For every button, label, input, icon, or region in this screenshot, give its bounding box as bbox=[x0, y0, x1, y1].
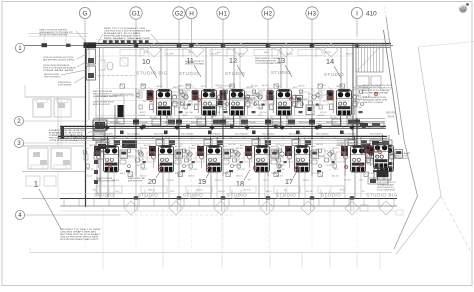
svg-text:KE 100: KE 100 bbox=[244, 190, 251, 192]
adjacent building lower rooms bbox=[22, 146, 85, 172]
svg-text:12: 12 bbox=[229, 56, 237, 65]
svg-text:OA 150: OA 150 bbox=[215, 84, 223, 87]
kitchen counters lower units bbox=[96, 186, 344, 193]
housekeeping fixtures bbox=[99, 58, 128, 70]
grid bubble I bbox=[351, 7, 362, 18]
svg-text:KE 100: KE 100 bbox=[294, 107, 301, 109]
corridor duct labels bbox=[100, 133, 383, 135]
svg-text:DUCT DUCT GRILLE RETURN: DUCT DUCT GRILLE RETURN bbox=[377, 190, 395, 192]
grid line H3 (vertical dashed) bbox=[311, 19, 313, 250]
fan coil pod lower unit 16 bbox=[341, 136, 374, 173]
ground ticks bbox=[103, 253, 380, 270]
svg-text:SA 125: SA 125 bbox=[303, 179, 310, 182]
note riser bbox=[93, 102, 115, 106]
svg-text:SA 250x200: SA 250x200 bbox=[137, 121, 149, 124]
svg-text:EA 75: EA 75 bbox=[266, 190, 272, 193]
leader right notes bbox=[347, 87, 362, 101]
svg-text:OA 150: OA 150 bbox=[156, 85, 164, 88]
upper units inner line bbox=[93, 55, 353, 57]
door swing arcs upper units bbox=[140, 48, 325, 57]
wall tick at x44 bbox=[42, 43, 48, 47]
svg-text:EA 75: EA 75 bbox=[178, 85, 184, 88]
svg-text:SA 250x200: SA 250x200 bbox=[326, 121, 338, 124]
svg-text:FCU-01: FCU-01 bbox=[286, 117, 294, 119]
faint street diagonal top-right bbox=[418, 42, 474, 48]
svg-text:CFM ROUTE SHAFT TO: CFM ROUTE SHAFT TO bbox=[49, 139, 86, 142]
svg-text:VCD: VCD bbox=[358, 86, 363, 88]
svg-text:H: H bbox=[189, 10, 194, 17]
fan coil pod lower unit 18 bbox=[245, 136, 278, 173]
svg-text:ScD 250x250: ScD 250x250 bbox=[316, 133, 329, 135]
svg-text:OA 150: OA 150 bbox=[230, 155, 238, 158]
housekeeping room bbox=[96, 93, 134, 119]
grid bubble H1 bbox=[217, 7, 229, 19]
svg-text:75 CFM: 75 CFM bbox=[166, 54, 173, 56]
grid line H2 (vertical dashed) bbox=[267, 19, 269, 250]
micro labels above bottom wall bbox=[93, 189, 365, 194]
fan coil pod upper unit 12 bbox=[220, 89, 250, 127]
svg-text:ScD 200: ScD 200 bbox=[140, 148, 149, 150]
svg-text:ABOVE FCU NOTE ROUTE: ABOVE FCU NOTE ROUTE bbox=[93, 103, 110, 106]
svg-text:14: 14 bbox=[326, 57, 334, 66]
left shaft box upper bbox=[87, 49, 96, 64]
svg-text:VCD: VCD bbox=[280, 145, 285, 147]
svg-text:KE 100: KE 100 bbox=[138, 90, 145, 92]
bath fixture boxes lower gaps bbox=[127, 149, 344, 162]
grid line 3 (horizontal) bbox=[24, 142, 88, 144]
svg-text:G2: G2 bbox=[175, 10, 184, 17]
svg-text:ScD 250x250: ScD 250x250 bbox=[100, 133, 113, 135]
svg-text:SA 125: SA 125 bbox=[318, 114, 325, 117]
balcony posts bbox=[64, 199, 394, 207]
leader lines top notes bbox=[76, 31, 162, 47]
wall tick at x68 bbox=[66, 44, 71, 47]
svg-text:20: 20 bbox=[148, 177, 156, 186]
svg-text:DUCT AIR ROUTE EXISTING RETURN: DUCT AIR ROUTE EXISTING RETURN bbox=[96, 180, 115, 183]
scatter marks lower pods bbox=[83, 149, 378, 172]
grid line 1 / building top wall bbox=[25, 44, 393, 48]
service stair bbox=[356, 44, 383, 72]
svg-text:KE 100: KE 100 bbox=[300, 99, 307, 101]
extra micro labels pass5 upper bbox=[138, 85, 365, 118]
corridor north wall bbox=[60, 126, 386, 128]
svg-text:ScD 200: ScD 200 bbox=[294, 95, 303, 97]
note pressurised shaft bbox=[255, 58, 281, 65]
svg-text:EA 75: EA 75 bbox=[229, 85, 235, 88]
svg-text:SD 250: SD 250 bbox=[87, 169, 95, 171]
svg-text:75 CFM: 75 CFM bbox=[336, 145, 343, 147]
svg-text:1: 1 bbox=[18, 45, 22, 52]
grid line G2 (vertical dashed) bbox=[178, 19, 180, 250]
svg-text:FCU-01: FCU-01 bbox=[174, 107, 182, 109]
duct junction between units 11 and 12 bbox=[218, 100, 224, 106]
svg-text:RG 300: RG 300 bbox=[367, 173, 375, 175]
note mid supply bbox=[232, 94, 255, 102]
unit number leader arrows upper bbox=[150, 65, 341, 78]
svg-text:KE 100: KE 100 bbox=[167, 180, 174, 182]
svg-text:AD 300: AD 300 bbox=[372, 143, 380, 146]
svg-text:ScD 250x250: ScD 250x250 bbox=[235, 133, 248, 135]
corridor extra duct lines bbox=[60, 116, 390, 144]
grid bubble 1 bbox=[15, 43, 24, 52]
svg-text:SD 250: SD 250 bbox=[286, 54, 294, 56]
svg-text:OA 150: OA 150 bbox=[324, 51, 332, 54]
svg-text:CFM MIN MIN: CFM MIN MIN bbox=[43, 70, 74, 72]
svg-text:SA 125: SA 125 bbox=[89, 144, 96, 147]
corridor left end dark bar bbox=[61, 127, 65, 139]
service area right wall bbox=[384, 30, 400, 135]
grid bubble 3 bbox=[14, 138, 23, 147]
svg-text:2: 2 bbox=[17, 118, 21, 125]
corridor left end stair ticks bbox=[62, 127, 82, 138]
left wall equipment cluster bbox=[93, 120, 108, 198]
note lavatory bbox=[93, 90, 118, 98]
svg-text:STUDIO: STUDIO bbox=[179, 71, 199, 76]
unit partition walls upper row bbox=[136, 48, 312, 118]
svg-text:SEE RETURN CEILING SUPPLY: SEE RETURN CEILING SUPPLY bbox=[43, 60, 76, 62]
svg-text:AD 300: AD 300 bbox=[262, 84, 270, 87]
grid bubble G bbox=[79, 7, 90, 18]
svg-text:VCD: VCD bbox=[170, 191, 175, 193]
door swing arcs lower units bbox=[145, 190, 330, 199]
note toilet kitchenette exhaust bbox=[49, 129, 89, 142]
fan coil pod lower unit 20 bbox=[149, 136, 182, 173]
grid line H1 (vertical dashed) bbox=[222, 19, 224, 250]
corridor valve diamonds bbox=[104, 125, 354, 130]
svg-text:EA 75: EA 75 bbox=[239, 53, 245, 56]
svg-text:AD 300: AD 300 bbox=[346, 116, 354, 119]
svg-text:ScD 250x250: ScD 250x250 bbox=[370, 133, 383, 135]
equipment micro labels lower pods bbox=[84, 142, 375, 182]
svg-text:RG 300: RG 300 bbox=[182, 156, 190, 158]
north arrow icon top-right bbox=[460, 3, 469, 12]
note louvre free area bbox=[377, 182, 396, 191]
grid bubble G2 bbox=[173, 7, 185, 19]
svg-text:17: 17 bbox=[285, 177, 293, 186]
unit partition walls lower row bbox=[136, 139, 345, 199]
partition extensions upper bbox=[136, 90, 312, 118]
svg-text:75 CFM: 75 CFM bbox=[256, 108, 263, 110]
svg-text:G: G bbox=[83, 10, 88, 17]
svg-text:ScD 200: ScD 200 bbox=[192, 145, 201, 147]
bottom wall thresholds bbox=[134, 196, 354, 199]
note fresh air bbox=[185, 61, 205, 65]
lower units inner line bbox=[60, 193, 390, 195]
building bottom wall bbox=[60, 199, 397, 207]
kitchen counters upper units bbox=[120, 50, 322, 56]
grid line I (vertical dashed) bbox=[356, 19, 358, 250]
ground line bbox=[30, 247, 392, 253]
svg-text:KE 100: KE 100 bbox=[211, 90, 218, 92]
svg-text:19: 19 bbox=[198, 177, 206, 186]
corridor inner texture ticks bbox=[96, 126, 387, 138]
svg-text:EA 75: EA 75 bbox=[187, 84, 193, 87]
corridor south wall bbox=[58, 136, 387, 138]
svg-text:H3: H3 bbox=[308, 10, 317, 17]
window ticks top wall bbox=[98, 44, 341, 48]
svg-text:VCD: VCD bbox=[253, 99, 258, 101]
svg-text:VCD: VCD bbox=[324, 151, 329, 153]
svg-text:OA 150: OA 150 bbox=[316, 143, 324, 146]
svg-text:EA 75: EA 75 bbox=[276, 85, 282, 88]
gap clusters lower row bbox=[135, 146, 335, 174]
svg-text:EA 75: EA 75 bbox=[120, 172, 126, 175]
svg-text:ScD 250x250: ScD 250x250 bbox=[343, 133, 356, 135]
svg-text:EA 75: EA 75 bbox=[278, 155, 284, 158]
svg-text:AIR ABOVE NOTE EXHAUST: AIR ABOVE NOTE EXHAUST bbox=[185, 63, 205, 66]
building right wall at grid I bbox=[353, 44, 356, 140]
svg-text:75 CFM: 75 CFM bbox=[188, 148, 195, 150]
misc diffuser symbols upper bbox=[120, 84, 345, 89]
svg-text:GRILLE AIR NOTE: GRILLE AIR NOTE bbox=[93, 95, 118, 98]
fan coil pod service area bbox=[364, 135, 403, 180]
svg-text:VCD: VCD bbox=[127, 156, 132, 158]
grid line 2 (horizontal) bbox=[24, 120, 88, 122]
svg-text:SA 250x200: SA 250x200 bbox=[191, 121, 203, 124]
leader from label 1 bbox=[39, 189, 61, 229]
svg-text:AD 300: AD 300 bbox=[251, 85, 259, 88]
note fcu ac units right bbox=[362, 85, 393, 94]
upper duct band boxes bbox=[152, 119, 355, 125]
svg-text:NOTE RETURN EXHAUST SHAFT SUPP: NOTE RETURN EXHAUST SHAFT SUPPLY bbox=[60, 238, 99, 241]
dark block corridor bottom left bbox=[122, 140, 137, 148]
svg-text:STUDIO BIG: STUDIO BIG bbox=[136, 71, 168, 76]
svg-text:75 CFM: 75 CFM bbox=[138, 115, 145, 117]
corridor ceiling duct line bbox=[93, 119, 385, 122]
svg-text:KE 100: KE 100 bbox=[158, 143, 165, 145]
right service corridor boxes bbox=[358, 122, 384, 155]
svg-text:OA 150: OA 150 bbox=[188, 175, 196, 178]
svg-text:ScD 200: ScD 200 bbox=[350, 143, 359, 145]
grid line G1 (vertical dashed) bbox=[135, 19, 137, 250]
right service cluster boost bbox=[368, 140, 392, 184]
counter front line lower units bbox=[96, 185, 344, 187]
corridor crossing ticks bbox=[133, 118, 360, 145]
adjacent building upper rooms bbox=[25, 85, 85, 117]
svg-text:410: 410 bbox=[366, 10, 377, 17]
svg-text:SD 250: SD 250 bbox=[213, 112, 221, 114]
svg-text:KE 100: KE 100 bbox=[225, 99, 232, 101]
svg-text:75 CFM: 75 CFM bbox=[183, 90, 190, 92]
micro labels under top wall bbox=[144, 51, 353, 56]
svg-text:AD 300: AD 300 bbox=[332, 175, 340, 178]
black duct shaft left of corridor bbox=[115, 105, 124, 138]
svg-text:ScD 200: ScD 200 bbox=[185, 112, 194, 114]
corridor junction boxes bbox=[98, 125, 366, 135]
fan coil pod lower unit 17 bbox=[285, 136, 318, 173]
grid bubble H bbox=[186, 7, 197, 18]
trapezoid area furniture bbox=[360, 205, 403, 215]
svg-text:OA 150: OA 150 bbox=[223, 116, 231, 119]
terrace post lines below wall bbox=[135, 199, 353, 211]
misc diffuser symbols lower bbox=[128, 172, 369, 177]
svg-text:SD 250: SD 250 bbox=[344, 180, 352, 182]
svg-text:4: 4 bbox=[18, 212, 22, 219]
note lower left pod b bbox=[128, 177, 145, 182]
svg-text:OA 150: OA 150 bbox=[298, 85, 306, 88]
svg-text:RG 300: RG 300 bbox=[276, 176, 284, 178]
fan coil pod upper unit 14 bbox=[327, 89, 357, 127]
dash-dot line housekeeping area bbox=[98, 75, 135, 77]
supply risers lower units bbox=[108, 171, 361, 199]
adjacent building corridor lines bbox=[58, 97, 61, 146]
left equipment zone boxes bbox=[94, 124, 106, 196]
equipment micro labels upper pods bbox=[138, 84, 363, 119]
grid line H (vertical dashed) bbox=[191, 19, 193, 250]
note access door bbox=[337, 140, 359, 147]
svg-text:SA 125: SA 125 bbox=[236, 175, 243, 178]
svg-text:SD 250: SD 250 bbox=[238, 169, 246, 171]
svg-text:I: I bbox=[356, 10, 358, 17]
svg-text:EA 75: EA 75 bbox=[223, 172, 229, 175]
svg-text:ScD 200: ScD 200 bbox=[228, 144, 237, 146]
leader lines left notes bbox=[61, 54, 86, 83]
note lower left pod a bbox=[96, 177, 115, 182]
svg-text:RG 300: RG 300 bbox=[120, 146, 128, 148]
svg-text:EA 75: EA 75 bbox=[247, 106, 253, 109]
svg-text:KE 100: KE 100 bbox=[260, 112, 267, 114]
svg-text:VCD: VCD bbox=[294, 143, 299, 145]
svg-text:SA 250x200: SA 250x200 bbox=[245, 121, 257, 124]
svg-text:3: 3 bbox=[17, 140, 21, 147]
note weather louvre bbox=[390, 152, 411, 160]
grid bubble 4 bbox=[15, 210, 24, 219]
svg-text:VCD: VCD bbox=[135, 151, 140, 153]
svg-text:75 CFM: 75 CFM bbox=[258, 90, 265, 92]
svg-text:FCU-01: FCU-01 bbox=[195, 117, 203, 119]
svg-text:75 CFM: 75 CFM bbox=[326, 165, 333, 167]
svg-text:SD 250: SD 250 bbox=[166, 117, 174, 119]
svg-text:AD 300: AD 300 bbox=[150, 116, 158, 119]
svg-text:ScD 250x250: ScD 250x250 bbox=[262, 133, 275, 135]
svg-text:GRILLE SUPPLY TYP CEILING SEE: GRILLE SUPPLY TYP CEILING SEE bbox=[363, 102, 383, 104]
svg-text:1: 1 bbox=[34, 180, 39, 189]
svg-text:EA 75: EA 75 bbox=[140, 111, 146, 114]
fan coil pod upper unit 11 bbox=[192, 89, 222, 127]
site line above building top-left bbox=[28, 30, 88, 43]
svg-text:EA 75: EA 75 bbox=[142, 168, 148, 171]
svg-text:VCD: VCD bbox=[359, 180, 364, 182]
property corner dashed continuation bbox=[441, 196, 471, 252]
svg-text:OA 150: OA 150 bbox=[336, 85, 344, 88]
lower duct band boxes bbox=[101, 140, 367, 146]
adjacent building furniture bbox=[33, 103, 70, 165]
gap clusters upper row bbox=[180, 90, 319, 116]
svg-text:VCD: VCD bbox=[254, 143, 259, 145]
svg-text:TYP DUCT EXISTING FCU: TYP DUCT EXISTING FCU bbox=[390, 158, 409, 160]
svg-text:GRILLE TYP ROUTE NEW FCU: GRILLE TYP ROUTE NEW FCU bbox=[44, 77, 61, 79]
svg-text:SD 250: SD 250 bbox=[330, 117, 338, 119]
note spill bbox=[43, 64, 77, 72]
svg-text:FCU-01: FCU-01 bbox=[354, 95, 362, 97]
svg-text:RG 300: RG 300 bbox=[223, 86, 231, 88]
svg-text:ScD 250x250: ScD 250x250 bbox=[127, 133, 140, 135]
service store text bbox=[386, 111, 396, 119]
svg-text:ABOVE GRILLE CFM SEE: ABOVE GRILLE CFM SEE bbox=[128, 180, 143, 183]
svg-text:SD 250: SD 250 bbox=[144, 145, 152, 147]
grid line 4 (horizontal) bbox=[25, 214, 235, 216]
svg-text:G1: G1 bbox=[132, 10, 141, 17]
note allow for professional clean bbox=[60, 229, 101, 241]
note transfer bbox=[44, 73, 61, 78]
note return grille bbox=[363, 96, 387, 104]
grid bubble H3 bbox=[306, 7, 318, 19]
svg-text:FCU-01: FCU-01 bbox=[180, 99, 188, 101]
fan coil pod lower unit 21 bbox=[94, 136, 127, 173]
svg-text:ROUTE NEW NEW: ROUTE NEW NEW bbox=[58, 85, 71, 87]
svg-text:VCD: VCD bbox=[276, 148, 281, 150]
svg-text:OA 150: OA 150 bbox=[374, 155, 382, 158]
duct penetration dashes above wall G-G1 bbox=[103, 40, 149, 43]
unit number leader arrows lower bbox=[156, 168, 299, 180]
service lower box bbox=[374, 167, 391, 180]
svg-text:EA 75: EA 75 bbox=[125, 143, 131, 146]
left shaft box lower bbox=[87, 66, 96, 80]
red thermostat symbols bbox=[108, 92, 381, 169]
property line inner bbox=[386, 17, 418, 249]
grid bubble G1 bbox=[130, 7, 142, 19]
svg-text:store: store bbox=[387, 115, 394, 119]
extra corridor duct labels row2 bbox=[110, 121, 365, 124]
leader toilet note bbox=[88, 130, 95, 133]
grid line G (vertical dashed) bbox=[84, 19, 86, 250]
svg-text:EA 75: EA 75 bbox=[264, 51, 270, 54]
svg-text:ScD 250x250: ScD 250x250 bbox=[181, 133, 194, 135]
svg-text:10: 10 bbox=[142, 57, 150, 66]
svg-text:FCU-01: FCU-01 bbox=[318, 90, 326, 92]
svg-text:SA 250x200: SA 250x200 bbox=[164, 121, 176, 124]
adjacent building lower wall bbox=[22, 171, 60, 199]
svg-text:GRILLE PROVIDE EXISTING: GRILLE PROVIDE EXISTING bbox=[39, 35, 68, 37]
building left wall bbox=[86, 43, 90, 207]
fan coil pod upper unit 10 bbox=[147, 89, 177, 127]
supply risers upper units bbox=[161, 48, 347, 89]
svg-text:SA 250x200: SA 250x200 bbox=[110, 121, 122, 124]
svg-text:FCU-01: FCU-01 bbox=[320, 112, 328, 114]
svg-text:VCD: VCD bbox=[276, 144, 281, 146]
scatter marks upper pods bbox=[136, 90, 364, 113]
grid bubble H2 bbox=[262, 7, 274, 19]
note top-left demolition bbox=[39, 30, 73, 37]
left wall duct riser pair bbox=[100, 48, 104, 126]
svg-text:SD 250: SD 250 bbox=[318, 156, 326, 158]
svg-text:SD 250: SD 250 bbox=[306, 191, 314, 193]
bath partition light lines bbox=[96, 101, 350, 159]
svg-text:SA 125: SA 125 bbox=[346, 53, 353, 56]
note new structural beam bbox=[104, 27, 151, 42]
svg-text:FCU-01: FCU-01 bbox=[239, 117, 247, 119]
svg-text:RG 300: RG 300 bbox=[211, 115, 219, 117]
svg-text:FCU-01: FCU-01 bbox=[215, 180, 223, 182]
partition extensions lower bbox=[136, 139, 345, 176]
svg-text:ScD 200: ScD 200 bbox=[354, 107, 363, 109]
svg-text:SA 250x200: SA 250x200 bbox=[353, 121, 365, 124]
svg-text:TO FCU EXISTING SHAFT ROUTE: TO FCU EXISTING SHAFT ROUTE bbox=[255, 62, 281, 65]
fan coil pod upper unit 13 bbox=[267, 89, 297, 127]
walk verticals below building bbox=[103, 206, 330, 252]
svg-text:SA 125: SA 125 bbox=[332, 147, 339, 150]
bed diamonds upper studios bbox=[147, 43, 338, 57]
bath fixture boxes upper gaps bbox=[172, 92, 328, 105]
svg-text:AD 300: AD 300 bbox=[236, 147, 244, 150]
site dashed vertical right bbox=[385, 7, 387, 17]
svg-text:FCU-01: FCU-01 bbox=[85, 176, 93, 178]
svg-text:STUDIO BIG: STUDIO BIG bbox=[366, 193, 398, 198]
property line outer faint bbox=[396, 47, 441, 254]
svg-text:SA 250x200: SA 250x200 bbox=[299, 121, 311, 124]
pod platform edge upper bbox=[96, 88, 350, 90]
note oa supply bbox=[43, 57, 76, 61]
